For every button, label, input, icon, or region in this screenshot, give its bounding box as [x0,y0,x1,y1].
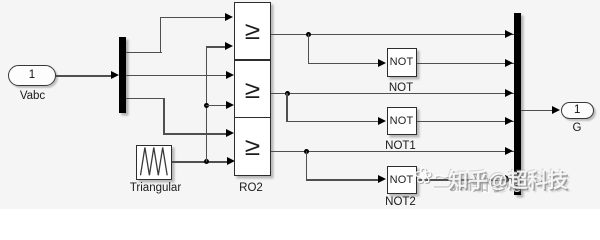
divider 2 [235,117,271,118]
arrowhead NOT in [378,59,386,67]
label G [557,122,597,134]
arrowhead RO2 in5 [226,129,234,137]
outport G [561,102,594,119]
wire vertical triangular net [206,46,207,162]
arrowhead NOT2 in [378,175,386,183]
label NOT [381,82,421,94]
wire NOT2 out to mux [417,179,515,180]
arrowhead NOT1 in [378,117,386,125]
wire mux out to G [521,110,553,111]
wire down to NOT1 [286,93,287,123]
mux bar [514,13,521,195]
label Vabc [13,90,53,102]
wire demux out3 to RO2 in5 [126,98,164,99]
arrowhead RO2 in2 [225,42,233,50]
arrowhead mux in3 [505,89,513,97]
junction dot out3 [304,149,309,154]
label Triangular [125,182,186,194]
demux bar [119,37,126,113]
arrowhead mux in4 [505,117,513,125]
arrowhead into G [552,106,560,114]
arrowhead RO2 in6 [227,157,235,165]
junction dot out1 [306,32,311,37]
gte symbol 2 [239,76,267,105]
Triangular block [136,145,172,180]
gte symbol 3 [239,133,267,162]
wire NOT out to mux [417,63,515,64]
inport Vabc [8,65,56,87]
wire Triangular out to RO2 in6 [172,161,228,162]
arrowhead mux in2 [505,59,513,67]
arrowhead mux in5 [505,147,513,155]
arrowhead mux in6 [505,175,513,183]
gte symbol 1 [239,17,267,46]
label NOT2 [381,196,421,208]
NOT block 3 [387,166,417,194]
NOT block 2 [387,107,417,135]
wire down to NOT2 [306,151,307,181]
wire NOT1 out to mux [417,121,515,122]
arrowhead RO2 in3 [226,71,234,79]
NOT block 1 [387,48,417,76]
arrowhead RO2 in4 [226,101,234,109]
divider 1 [235,59,271,60]
junction dot triangular net [204,159,209,164]
wire demux out1 to RO2 in1 [126,52,161,53]
wire Vabc to demux [56,75,112,76]
arrowhead into demux [111,71,119,79]
arrowhead RO2 in1 [225,13,233,21]
watermark [414,159,600,199]
wire RO2 out1 to mux [271,34,514,35]
label NOT1 [381,140,421,152]
label RO2 [231,182,272,194]
wire branch to RO2 in4 [206,105,228,106]
relational operator column RO2 [234,2,271,176]
wire RO2 out2 to mux [271,93,514,94]
wire RO2 out3 to mux [271,151,514,152]
arrowhead mux in1 [505,30,513,38]
junction dot mid [204,103,209,108]
junction dot out2 [285,91,290,96]
wire branch to RO2 in2 [206,46,227,47]
wire down to NOT [308,34,309,64]
wire demux out2 to RO2 in3 [126,75,226,76]
